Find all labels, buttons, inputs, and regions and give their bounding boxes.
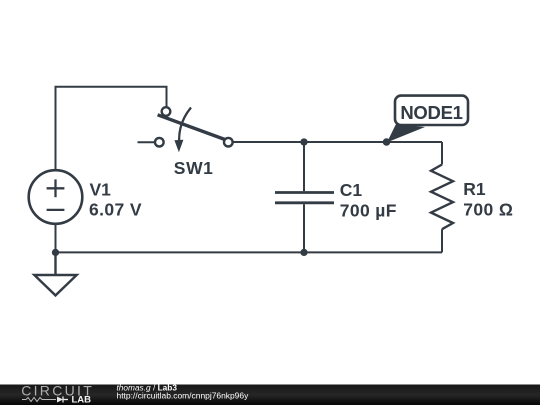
svg-text:700 µF: 700 µF bbox=[340, 200, 397, 220]
node NODE1 callout tail bbox=[387, 124, 425, 142]
switch bar bbox=[158, 115, 225, 140]
wire resistor top lead bbox=[441, 142, 443, 165]
CircuitLab logo resistor squiggle bbox=[22, 398, 56, 402]
svg-text:V1: V1 bbox=[90, 180, 112, 200]
svg-text:C1: C1 bbox=[340, 180, 363, 200]
ground bbox=[34, 252, 76, 295]
voltage source V1 bbox=[29, 170, 83, 224]
CircuitLab logo diode bbox=[57, 397, 63, 403]
svg-text:6.07 V: 6.07 V bbox=[89, 200, 142, 220]
capacitor C1 bbox=[275, 193, 334, 203]
node NODE1 balloon bbox=[395, 96, 468, 125]
svg-text:http://circuitlab.com/cnnpj76n: http://circuitlab.com/cnnpj76nkp96y bbox=[117, 390, 250, 400]
junction node capacitor bottom bbox=[300, 249, 307, 256]
svg-text:LAB: LAB bbox=[72, 394, 92, 405]
resistor R1 bbox=[431, 165, 453, 230]
junction node at V1/ground bbox=[52, 249, 59, 256]
wire V1 bottom bbox=[55, 224, 57, 252]
svg-text:700 Ω: 700 Ω bbox=[463, 200, 513, 220]
switch throw circle top bbox=[162, 107, 171, 116]
wire resistor bottom lead bbox=[441, 229, 443, 252]
wire V1 top to switch throw (corner) bbox=[56, 87, 167, 170]
wire bottom horizontal bbox=[56, 251, 443, 253]
svg-text:SW1: SW1 bbox=[174, 158, 214, 178]
switch motion arrow bbox=[174, 108, 191, 153]
switch throw circle left bbox=[155, 138, 164, 147]
wire switch to resistor top bbox=[233, 141, 442, 143]
junction node capacitor top bbox=[300, 138, 307, 145]
switch pole circle bbox=[224, 138, 233, 147]
junction node NODE1 bbox=[383, 138, 391, 146]
svg-text:NODE1: NODE1 bbox=[400, 102, 462, 123]
wire switch left stub bbox=[138, 141, 155, 143]
wire capacitor top lead bbox=[303, 142, 305, 191]
svg-text:R1: R1 bbox=[463, 179, 486, 199]
switch SW1 bbox=[155, 107, 233, 146]
wire capacitor bottom lead bbox=[303, 204, 305, 252]
